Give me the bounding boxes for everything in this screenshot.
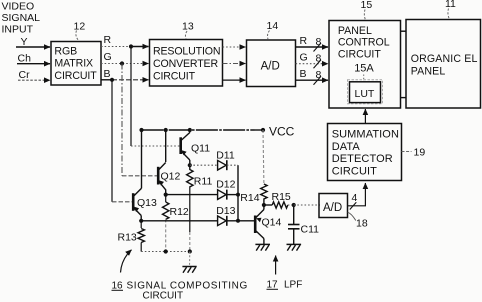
block 19 SUMMATION DATA DETECTOR CIRCUIT: [328, 124, 402, 181]
wire Q13 emitter to D13: [141, 220, 217, 222]
svg-text:CIRCUIT: CIRCUIT: [143, 291, 184, 302]
junction dot VCC Q11: [188, 128, 192, 132]
junction dot G tap: [120, 61, 124, 65]
svg-text:Q12: Q12: [161, 171, 181, 183]
bus width 4 label: [350, 192, 358, 210]
svg-text:17: 17: [267, 279, 279, 290]
junction dot VCC Q12: [164, 128, 168, 132]
svg-text:R13: R13: [118, 232, 137, 244]
svg-text:A/D: A/D: [323, 202, 342, 214]
svg-text:4: 4: [352, 192, 358, 204]
label 13 with leader: [182, 21, 194, 40]
block 12 RGB MATRIX CIRCUIT: [51, 42, 101, 86]
wire resolution to A/D row B: [223, 79, 246, 81]
svg-text:18: 18: [356, 218, 368, 230]
svg-text:R15: R15: [272, 191, 291, 203]
junction dot Q11 emitter: [188, 163, 192, 167]
resistor R14: [240, 130, 267, 205]
svg-text:RGB: RGB: [54, 45, 77, 57]
svg-text:CIRCUIT: CIRCUIT: [338, 48, 381, 60]
svg-text:R: R: [300, 35, 308, 47]
wire A/D 18 to summation detector: [348, 183, 366, 206]
resistor R12: [163, 195, 189, 252]
junction dot B tap: [110, 78, 114, 82]
junction dot R tap: [129, 44, 133, 48]
wire LPF output to A/D 18 (dotted): [294, 204, 320, 206]
svg-text:14: 14: [267, 20, 279, 32]
svg-text:12: 12: [74, 21, 86, 33]
wire diode cathode tie: [237, 165, 239, 221]
svg-text:CIRCUIT: CIRCUIT: [153, 70, 196, 82]
label 16 SIGNAL COMPOSITING CIRCUIT: [112, 280, 248, 301]
junction dot R15/C11: [292, 203, 296, 207]
svg-text:Q11: Q11: [191, 143, 210, 155]
capacitor C11: [288, 205, 319, 244]
svg-text:SIGNAL: SIGNAL: [2, 12, 41, 24]
transistor Q11: [181, 130, 211, 165]
svg-text:15A: 15A: [354, 63, 374, 75]
svg-text:RESOLUTION: RESOLUTION: [153, 46, 220, 58]
wire panel control to organic EL bottom: [401, 97, 407, 99]
label VIDEO SIGNAL INPUT: [2, 1, 41, 36]
diode D11: [216, 150, 238, 171]
ground under Q14: [255, 244, 270, 250]
wire A/D to panel control row G: [296, 63, 329, 65]
wire resolution to A/D row R: [223, 46, 246, 48]
svg-text:R11: R11: [194, 176, 213, 188]
wire Cr input: [18, 79, 50, 81]
svg-text:VCC: VCC: [269, 124, 295, 138]
label 11 with leader: [445, 0, 456, 20]
junction dot tie D13: [236, 219, 240, 223]
svg-text:CIRCUIT: CIRCUIT: [332, 166, 377, 178]
power rail VCC: [142, 129, 264, 131]
wire B from RGB matrix to resolution converter: [101, 79, 112, 81]
wire summation detector to panel control (arrow up): [364, 109, 366, 124]
svg-text:G: G: [104, 51, 112, 63]
transistor Q13: [133, 130, 157, 221]
svg-text:INPUT: INPUT: [2, 24, 34, 36]
wire Ch input: [17, 63, 50, 65]
bus width 8 label B: [314, 69, 322, 85]
svg-text:15: 15: [361, 0, 373, 11]
block 18 A/D: [319, 194, 348, 218]
label 12 with leader: [74, 21, 86, 42]
junction dot rail R12: [164, 249, 168, 253]
wire B tap vertical: [111, 80, 113, 202]
label 19 with dashed leader: [402, 147, 426, 159]
svg-text:MATRIX: MATRIX: [54, 58, 93, 70]
svg-text:R: R: [104, 34, 112, 46]
svg-text:Q13: Q13: [137, 197, 157, 209]
svg-text:LUT: LUT: [355, 88, 375, 100]
svg-text:16: 16: [112, 280, 124, 291]
transistor Q14 (PNP): [255, 205, 281, 244]
svg-text:LPF: LPF: [284, 279, 302, 290]
ground middle: [182, 267, 196, 273]
wire resolution to A/D row G: [223, 63, 246, 65]
svg-text:ORGANIC EL: ORGANIC EL: [411, 53, 478, 65]
wire stub to middle ground: [189, 252, 191, 267]
junction dot R14/R15/Q14: [262, 203, 266, 207]
svg-text:B: B: [300, 68, 307, 80]
block 11 ORGANIC EL PANEL: [406, 20, 481, 109]
block 15A LUT: [348, 75, 383, 104]
svg-text:G: G: [300, 52, 308, 64]
svg-text:CONTROL: CONTROL: [338, 37, 390, 49]
svg-text:D13: D13: [216, 205, 235, 217]
svg-text:Ch: Ch: [18, 53, 32, 65]
wire Q12 emitter to D12: [166, 194, 218, 196]
leader arrow 16 to R13: [121, 250, 132, 273]
svg-text:PANEL: PANEL: [411, 66, 446, 78]
svg-text:B: B: [104, 68, 111, 80]
wire R tap vertical: [130, 47, 132, 147]
svg-text:Q14: Q14: [262, 217, 282, 229]
svg-text:D12: D12: [216, 178, 235, 190]
junction dot VCC left: [139, 128, 143, 132]
svg-text:CONVERTER: CONVERTER: [153, 58, 218, 70]
resistor R11: [187, 165, 213, 251]
label 18 with leader: [348, 212, 368, 229]
wire Q11 emitter to D11 (dotted): [190, 164, 218, 166]
svg-text:VIDEO: VIDEO: [2, 1, 35, 13]
svg-text:CIRCUIT: CIRCUIT: [54, 70, 97, 82]
ground under C11: [287, 244, 302, 250]
svg-text:R12: R12: [170, 206, 189, 218]
ground rail (dotted): [141, 251, 190, 253]
wire A/D to panel control row B: [296, 79, 329, 81]
wire G tap vertical (dash-dot): [121, 64, 123, 176]
junction dot tie D12: [236, 193, 240, 197]
wire R from RGB matrix to resolution converter: [101, 46, 131, 48]
svg-text:R14: R14: [240, 192, 259, 204]
diode D13: [216, 205, 255, 226]
svg-text:13: 13: [182, 21, 194, 33]
leader arrow 17 to LPF: [275, 256, 277, 275]
wire Y input: [16, 46, 50, 48]
wire panel control to organic EL top: [401, 30, 407, 32]
label 15 with leader: [361, 0, 373, 20]
junction dot VCC right end: [261, 128, 265, 132]
svg-text:D11: D11: [216, 150, 235, 162]
svg-text:PANEL: PANEL: [338, 25, 372, 37]
bus width 8 label R: [314, 36, 322, 52]
diode D12: [216, 178, 238, 199]
wire G from RGB matrix to resolution converter (dotted): [101, 63, 149, 65]
wire G to Q12 base (dashed): [122, 175, 157, 177]
resistor R15: [264, 191, 294, 208]
junction dot rail R11: [188, 249, 192, 253]
label 17 LPF: [267, 279, 303, 290]
block 15 PANEL CONTROL CIRCUIT: [329, 21, 401, 109]
block 13 RESOLUTION CONVERTER CIRCUIT: [150, 40, 223, 87]
svg-text:C11: C11: [301, 224, 320, 236]
svg-text:Cr: Cr: [19, 69, 31, 81]
wire B to Q13 base: [112, 201, 133, 203]
junction dot Q12 emitter: [164, 193, 168, 197]
resistor R13: [118, 221, 145, 252]
wire R to Q11 base (dotted): [131, 145, 180, 147]
svg-text:19: 19: [414, 147, 426, 159]
bus width 8 label G: [314, 53, 322, 68]
svg-text:SUMMATION: SUMMATION: [332, 129, 399, 141]
svg-text:A/D: A/D: [261, 61, 280, 73]
block 14 A/D converter: [247, 40, 296, 87]
label 14 with leader: [267, 20, 279, 39]
svg-text:11: 11: [445, 0, 456, 10]
svg-text:Y: Y: [21, 36, 28, 48]
transistor Q12: [158, 130, 180, 195]
junction dot Q13 emitter: [139, 219, 143, 223]
svg-text:DATA: DATA: [332, 141, 361, 153]
svg-text:DETECTOR: DETECTOR: [332, 153, 393, 165]
wire A/D to panel control row R: [296, 46, 329, 48]
